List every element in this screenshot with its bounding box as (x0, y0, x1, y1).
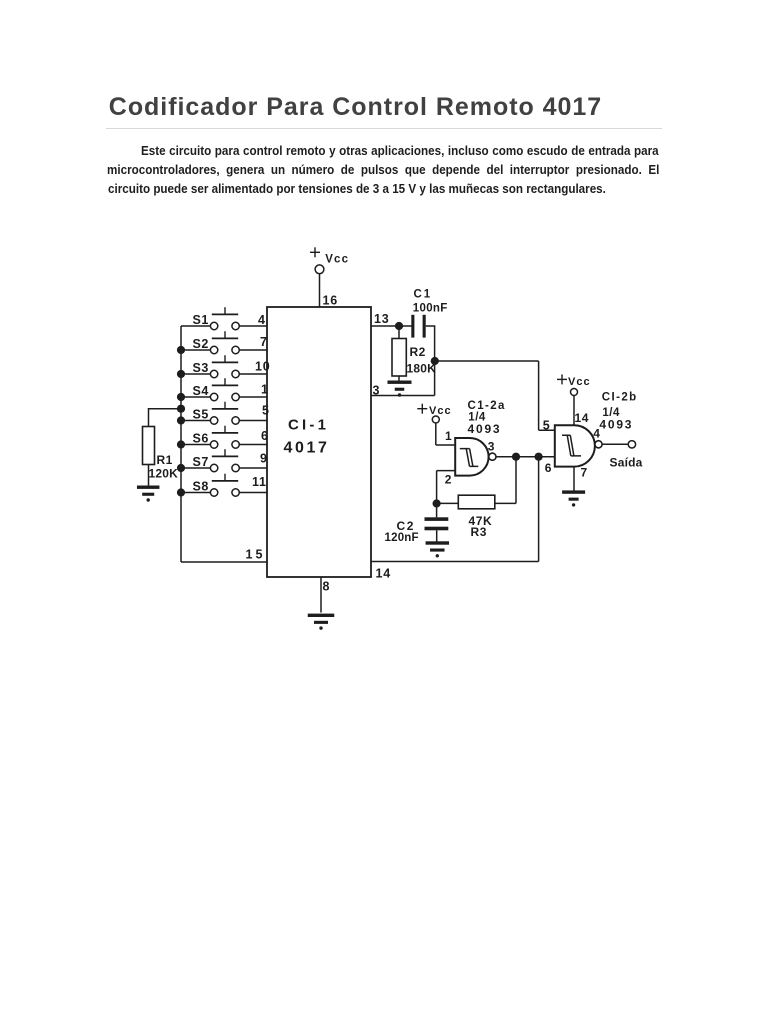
wire Vcc to pin 16 (319, 274, 321, 307)
output bubble gate B (595, 441, 602, 448)
svg-text:5: 5 (262, 404, 270, 418)
junction S6 on bus (177, 440, 185, 448)
svg-text:S5: S5 (193, 408, 209, 422)
svg-text:7: 7 (581, 466, 588, 480)
junction S7 on bus (177, 464, 185, 472)
output terminal Saida (628, 441, 635, 448)
svg-text:S6: S6 (193, 432, 209, 446)
svg-text:C1: C1 (414, 289, 433, 301)
paragraph line 2 (107, 164, 659, 177)
svg-text:S8: S8 (193, 480, 209, 494)
ground (pin 8) (308, 614, 335, 630)
wire pin 8 to ground (320, 577, 322, 613)
svg-text:6: 6 (545, 461, 552, 475)
svg-text:Saída: Saída (610, 455, 643, 469)
junction pin2/C2/R3 (433, 499, 441, 507)
capacitor C2 plates (425, 504, 449, 542)
svg-text:120K: 120K (149, 467, 179, 481)
title underline rule (106, 128, 662, 129)
wire pin 14 feedback vertical (538, 457, 540, 562)
resistor R3 body (458, 495, 495, 509)
svg-text:11: 11 (252, 475, 267, 489)
svg-text:14: 14 (575, 411, 590, 425)
svg-text:R2: R2 (410, 345, 426, 359)
svg-text:Vcc: Vcc (325, 254, 349, 266)
junction S8 on bus (177, 488, 185, 496)
svg-text:5: 5 (543, 419, 551, 433)
wire junction to R2 (398, 326, 400, 339)
wire gate A output to gate B pin 6 (496, 456, 555, 458)
schmitt hysteresis symbol (gate B) (562, 435, 581, 456)
svg-text:Vcc: Vcc (568, 376, 591, 388)
svg-text:8: 8 (323, 580, 331, 594)
svg-text:15: 15 (246, 548, 266, 562)
svg-text:R3: R3 (471, 525, 488, 539)
wire R1 to ground (148, 465, 150, 486)
svg-text:Vcc: Vcc (429, 405, 452, 417)
resistor R1 body (143, 427, 155, 465)
ground (C2) (426, 541, 450, 557)
wire gate B output to Saida terminal (602, 443, 628, 445)
svg-text:4093: 4093 (468, 422, 502, 436)
svg-text:CI-1: CI-1 (288, 417, 329, 434)
capacitor C1 plates (411, 315, 425, 338)
switch S2 pushbutton (181, 331, 267, 353)
IC U1 CI-1 4017 body (267, 307, 371, 577)
resistor R2 body (392, 339, 406, 377)
wire feedback vertical R3 (515, 457, 517, 504)
wire pin 14 feedback horizontal (371, 561, 539, 563)
svg-text:100nF: 100nF (413, 302, 448, 314)
ground (R2) (388, 381, 412, 397)
junction feedback on gate A output (512, 453, 520, 461)
wire R2 to ground (398, 376, 400, 381)
ground (gate B) (562, 490, 585, 506)
Vcc terminal (gate A pin 1) (432, 416, 439, 423)
NAND gate U2b CI-2b body (555, 425, 595, 466)
svg-text:9: 9 (260, 452, 268, 466)
label + (Vcc B) (557, 374, 567, 384)
svg-text:1: 1 (445, 429, 452, 443)
wire pin 3 horizontal (371, 395, 435, 397)
junction pin13/R2/C1 (395, 322, 403, 330)
switch S4 pushbutton (181, 378, 267, 400)
Vcc terminal (gate B pin 14) (571, 389, 578, 396)
svg-text:4017: 4017 (284, 440, 330, 457)
ground (R1) (137, 486, 160, 502)
svg-text:3: 3 (488, 440, 495, 454)
svg-text:S3: S3 (193, 361, 209, 375)
wire pin 13 to C1 (371, 325, 412, 327)
output bubble gate A (489, 453, 496, 460)
svg-text:120nF: 120nF (385, 532, 419, 544)
wire Vcc to gate A pin 1 (436, 423, 456, 445)
svg-text:14: 14 (376, 567, 392, 581)
svg-text:CI-2b: CI-2b (602, 392, 638, 404)
switch S6 pushbutton (181, 426, 267, 448)
svg-text:C1-2a: C1-2a (468, 400, 506, 412)
junction R1 branch on bus (177, 405, 185, 413)
paragraph line 3 (108, 183, 606, 196)
wire left bus vertical (switch common) (180, 326, 182, 562)
junction S5 on bus (177, 416, 185, 424)
svg-text:S1: S1 (193, 313, 209, 327)
junction S3 on bus (177, 370, 185, 378)
Vcc terminal (pin 16 supply) (315, 265, 324, 274)
svg-text:7: 7 (260, 335, 268, 349)
wire C1 to node (426, 325, 436, 327)
svg-text:4: 4 (258, 313, 266, 327)
svg-text:S7: S7 (193, 455, 209, 469)
schmitt hysteresis symbol (gate A) (460, 449, 479, 467)
label + (Vcc 16) (310, 247, 320, 257)
wire R3 to feedback (495, 502, 516, 504)
wire node vertical C1/pin3 (434, 326, 436, 396)
wire bus to pin 15 (181, 561, 267, 563)
svg-text:C2: C2 (397, 519, 416, 533)
svg-text:1: 1 (261, 383, 269, 397)
switch S8 pushbutton (181, 474, 267, 496)
junction S4 on bus (177, 393, 185, 401)
wire Vcc to gate B pin 14 (573, 396, 575, 426)
svg-text:S2: S2 (193, 337, 209, 351)
wire gate B pin 7 to ground (573, 467, 575, 491)
svg-text:13: 13 (374, 312, 390, 326)
switch S7 pushbutton (181, 449, 267, 471)
wire node to gate B pin 5 (435, 361, 555, 430)
svg-text:16: 16 (323, 294, 339, 308)
svg-text:2: 2 (445, 472, 452, 486)
switch S1 pushbutton (181, 307, 267, 329)
node A junction (oscillator RC node) (431, 357, 439, 365)
svg-text:R1: R1 (157, 453, 173, 467)
wire junction to R3 (437, 502, 459, 504)
svg-text:10: 10 (255, 360, 271, 374)
switch S5 pushbutton (181, 402, 267, 424)
svg-text:4093: 4093 (599, 418, 633, 432)
svg-text:6: 6 (261, 429, 269, 443)
junction S2 on bus (177, 346, 185, 354)
junction pin 14 net on pin 6 wire (535, 453, 543, 461)
NAND gate U2a CI-2a body (455, 438, 488, 476)
wire bus to R1 (148, 408, 181, 427)
switch S3 pushbutton (181, 355, 267, 377)
label + (Vcc A) (417, 404, 427, 414)
svg-text:S4: S4 (193, 384, 209, 398)
wire gate A pin 2 (437, 471, 456, 504)
document title (109, 95, 602, 120)
paragraph line 1 (141, 145, 659, 158)
